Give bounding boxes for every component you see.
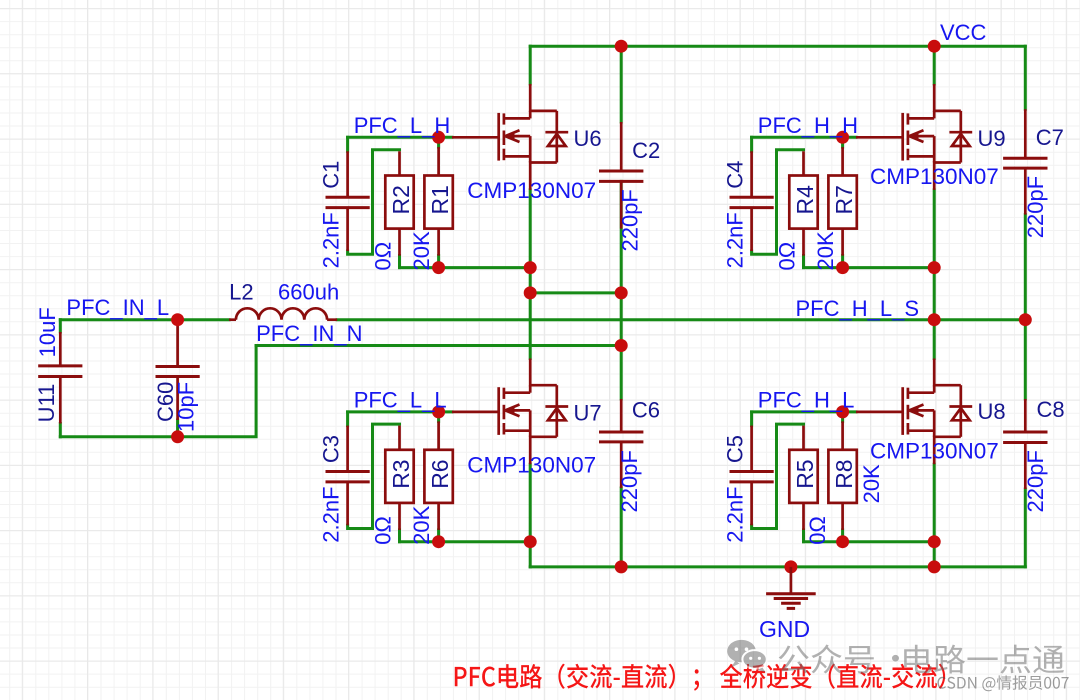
watermark WeChat logo + gongzhonghao text [727,640,1064,674]
capacitor C6 top pin [620,399,623,432]
transistor U8 source pin [933,436,936,465]
junction PFC_L_H gate node [432,131,445,144]
wire net PFC_L_H horizontal [348,136,452,139]
svg-text:20K: 20K [859,464,884,503]
svg-text:PFC_IN_L: PFC_IN_L [66,295,169,320]
wire PFC_L_H to C1 top [346,137,349,151]
wire junction to R6 top [437,412,440,422]
transistor U6 drain pin [529,84,532,112]
wire upper-right resistor bottom rail [804,266,935,269]
svg-text:220pF: 220pF [1023,176,1048,238]
resistor R4 top pin [802,151,805,175]
wire junction to R7 top [841,137,844,147]
transistor U6 (N-MOSFET with body diode) [499,111,569,163]
wire lower-right resistor bottom rail [804,540,935,543]
transistor U7 gate pin [452,411,499,414]
capacitor C3 plates [326,470,370,473]
svg-text:R7: R7 [831,185,857,214]
junction PFC_H_H gate node [836,131,849,144]
svg-text:0Ω: 0Ω [370,516,395,545]
junction C60 bottom [171,430,184,443]
svg-text:220pF: 220pF [617,450,642,512]
transistor U7 (N-MOSFET with body diode) [499,385,569,437]
resistor R7 bottom pin [841,229,844,256]
svg-text:U8: U8 [978,399,1006,424]
svg-text:R8: R8 [831,459,857,488]
svg-text:U9: U9 [978,126,1006,151]
wire net PFC_H_L horizontal [752,410,856,413]
wire R8 bottom stub [841,530,844,542]
wire C2 bottom [620,181,623,293]
svg-text:L2: L2 [229,280,253,305]
svg-text:R1: R1 [427,185,453,214]
svg-text:PFC_L_H: PFC_L_H [354,113,451,138]
wire R6 bottom stub [437,530,440,542]
junction ground rail / GND [784,560,797,573]
wire net PFC_H_L_S long rail [337,318,1025,321]
wire C8 bottom to ground rail corner [1024,489,1027,567]
wire U6 source down [529,190,532,293]
capacitor C8 bottom pin [1024,443,1027,490]
capacitor C7 bottom pin [1024,168,1027,215]
capacitor C1 bottom pin [346,208,349,251]
svg-text:CMP130N07: CMP130N07 [467,452,596,477]
wire R5 bottom corner [802,530,805,542]
resistor R1 top pin [437,147,440,175]
wire lower-left resistor bottom rail [400,540,531,543]
junction PFC_H_L gate node [836,405,849,418]
wire VCC rail to U6 drain [529,46,532,84]
transistor U9 source pin [933,161,936,190]
resistor R3 bottom pin [398,503,401,530]
svg-text:GND: GND [759,616,810,642]
junction R1 bottom [432,261,445,274]
junction PFC_H_L_S / C7-C8 [1019,313,1032,326]
svg-text:C6: C6 [632,398,660,423]
svg-text:PFC_H_H: PFC_H_H [758,113,858,138]
wire bottom return PFC_IN_N [60,346,256,437]
junction R8 bottom [836,535,849,548]
junction C2 bottom [615,286,628,299]
resistor R6 (20K) [424,450,452,503]
svg-text:CMP130N07: CMP130N07 [870,164,999,189]
wire VCC rail to U9 drain [933,46,936,84]
svg-text:10uF: 10uF [35,307,60,357]
wire C5 bottom loop to R5 top [752,424,804,528]
resistor R2 bottom pin [398,229,401,256]
wire PFC_H_L to C5 top [750,412,753,426]
wire U11 bottom stub [59,424,62,437]
capacitor C4 plates [730,196,774,199]
svg-text:10pF: 10pF [173,382,198,432]
svg-text:PFC_IN_N: PFC_IN_N [256,321,362,346]
resistor R3 top pin [398,426,401,450]
wire VCC junction to C2 top [620,46,623,122]
svg-text:PFC_H_L_S: PFC_H_L_S [796,296,920,321]
wire upper-left resistor bottom rail [400,266,531,269]
wire net PFC_IN_N rail [256,344,621,347]
wire U7 source to ground rail corner [529,542,532,567]
svg-text:CMP130N07: CMP130N07 [467,178,596,203]
svg-text:220pF: 220pF [1023,450,1048,512]
junction U8 source rail [928,535,941,548]
capacitor C6 bottom pin [620,442,623,488]
transistor U7 source pin [529,436,532,465]
resistor R8 (20K) [828,450,856,503]
capacitor C5 plates [730,470,774,473]
wire U8 source down [933,464,936,542]
wire VCC top rail [530,45,1025,48]
junction U6 source rail [524,261,537,274]
junction VCC/U9 drain [928,40,941,53]
wire ground bottom rail [530,565,1025,568]
wire C7 bottom to PFC_H_L_S [1024,215,1027,320]
junction ground rail / C6 [615,560,628,573]
wire U6 source to U7 drain [529,293,532,359]
capacitor C7 top pin [1024,109,1027,158]
wire C1 bottom loop to R2 top [348,150,400,254]
wire PFC_L_L to C3 top [346,412,349,426]
capacitor C5 top pin [750,426,753,472]
capacitor C1 top pin [346,151,349,197]
junction R7 bottom [836,261,849,274]
capacitor C3 top pin [346,426,349,472]
capacitor C8 plates [1003,431,1047,434]
svg-text:C5: C5 [722,435,747,463]
capacitor C60 top pin [176,321,179,367]
svg-text:U6: U6 [574,126,602,151]
wire U9 source to U8 drain [933,320,936,359]
wire PFC_H_H to C4 top [750,137,753,151]
svg-text:C1: C1 [318,161,343,189]
svg-text:C7: C7 [1036,125,1064,150]
junction U6 source / C2 rail [524,286,537,299]
transistor U8 drain pin [933,359,936,387]
capacitor C7 plates [1003,157,1047,160]
wire C4 bottom loop to R4 top [752,150,804,254]
transistor U9 (N-MOSFET with body diode) [903,111,973,163]
resistor R6 top pin [437,421,440,449]
capacitor C1 plates [326,196,370,199]
capacitor C60 bottom pin [176,377,179,421]
wire C60 bottom stub [176,420,179,437]
capacitor C5 bottom pin [750,482,753,525]
transistor U7 drain pin [529,359,532,387]
capacitor C8 top pin [1024,399,1027,432]
svg-text:20K: 20K [813,231,838,270]
svg-text:220pF: 220pF [618,189,643,251]
svg-text:R5: R5 [792,459,818,488]
resistor R5 top pin [802,426,805,450]
capacitor U11 top pin [59,332,62,366]
resistor R3 (0Ω) [385,450,413,503]
capacitor C3 bottom pin [346,482,349,525]
inductor L2 right lead [327,318,337,321]
junction PFC_H_L_S / U9 leg [928,313,941,326]
wire C6 bottom to ground rail [620,488,623,567]
resistor R5 (0Ω) [789,450,817,503]
svg-text:R3: R3 [388,459,414,488]
junction U7 source rail [524,535,537,548]
wire junction to R1 top [437,137,440,147]
inductor L2 winding [236,308,327,319]
resistor R7 top pin [841,147,844,175]
wire R7 bottom stub [841,256,844,268]
wire rail U6 source to C2 bottom [530,291,621,294]
junction PFC_IN_N / C6 [615,339,628,352]
junction U9 source rail [928,261,941,274]
svg-text:0Ω: 0Ω [370,242,395,271]
svg-text:C3: C3 [318,435,343,463]
svg-text:20K: 20K [409,505,434,544]
wire junction to R8 top [841,412,844,422]
svg-text:R2: R2 [388,185,414,214]
resistor R5 bottom pin [802,503,805,530]
capacitor C60 plates [156,365,200,368]
junction PFC_IN_L / C60 [171,313,184,326]
ground symbol [790,567,793,594]
wire PFC_IN_N junction to C6 top [620,346,623,400]
transistor U8 gate pin [856,411,903,414]
capacitor C4 bottom pin [750,208,753,251]
wire U7 source down [529,464,532,542]
transistor U6 source pin [529,161,532,190]
transistor U9 gate pin [856,136,903,139]
inductor L2 left lead [229,318,236,321]
svg-text:20K: 20K [409,231,434,270]
capacitor C2 bottom pin [620,181,623,228]
wire net PFC_H_H horizontal [752,136,856,139]
resistor R6 bottom pin [437,503,440,530]
svg-text:R4: R4 [792,185,818,215]
resistor R1 bottom pin [437,229,440,256]
svg-text:PFC_L_L: PFC_L_L [354,388,447,413]
resistor R1 (20K) [424,176,452,229]
resistor R2 top pin [398,151,401,175]
wire R3 bottom corner [398,530,401,542]
resistor R8 bottom pin [841,503,844,530]
svg-text:U11: U11 [34,384,59,423]
svg-text:2.2nF: 2.2nF [722,212,747,268]
svg-text:CMP130N07: CMP130N07 [870,438,999,463]
wire C3 bottom loop to R3 top [348,424,400,528]
svg-text:660uh: 660uh [278,280,339,305]
svg-text:C8: C8 [1037,397,1065,422]
svg-text:2.2nF: 2.2nF [318,212,343,268]
svg-text:2.2nF: 2.2nF [722,486,747,542]
caption red text PFC circuit description [455,664,945,691]
resistor R7 (20K) [828,176,856,229]
svg-text:C4: C4 [722,161,747,189]
wire R4 bottom corner [802,256,805,268]
wire PFC_H_L_S junction to C8 top [1024,320,1027,399]
resistor R4 (0Ω) [789,176,817,229]
capacitor C4 top pin [750,151,753,197]
svg-text:PFC_H_L: PFC_H_L [758,388,855,413]
wire VCC rail to C7 [1024,46,1027,109]
svg-text:U7: U7 [574,400,602,425]
watermark CSDN @qingbaoyuan007 [937,675,1068,691]
svg-text:2.2nF: 2.2nF [318,486,343,542]
svg-text:0Ω: 0Ω [774,242,799,271]
capacitor C6 plates [599,431,643,434]
wire net PFC_IN_L left segment [60,318,229,321]
capacitor C2 plates [599,170,643,173]
wire U9 source down to PFC_H_L_S [933,190,936,320]
junction PFC_L_L gate node [432,405,445,418]
wire U11 top stub [59,320,62,332]
junction ground rail / U8 leg [928,560,941,573]
capacitor C2 top pin [620,122,623,171]
resistor R4 bottom pin [802,229,805,256]
transistor U6 gate pin [452,136,499,139]
wire R2 bottom corner [398,256,401,268]
wire U8 source to ground rail [933,542,936,567]
transistor U8 (N-MOSFET with body diode) [903,385,973,437]
capacitor U11 bottom pin [59,377,62,424]
junction R6 bottom [432,535,445,548]
capacitor U11 plates [38,364,82,367]
transistor U9 drain pin [933,84,936,112]
svg-text:C2: C2 [632,138,660,163]
wire net PFC_L_L horizontal [348,410,452,413]
wire C2 rail to PFC_IN_N junction [620,293,623,346]
resistor R8 top pin [841,421,844,449]
svg-text:0Ω: 0Ω [805,516,830,545]
svg-text:R6: R6 [427,459,453,488]
svg-text:VCC: VCC [940,20,987,45]
resistor R2 (0Ω) [385,176,413,229]
junction VCC/C2 [615,40,628,53]
wire R1 bottom stub [437,256,440,268]
